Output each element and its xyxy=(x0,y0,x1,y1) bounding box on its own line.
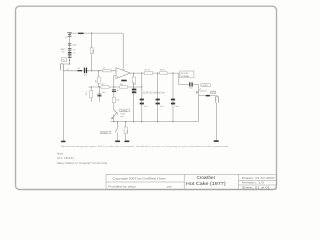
svg-text:(C) 2007 by GodRest Drive: (C) 2007 by GodRest Drive xyxy=(142,92,165,95)
wire battery column xyxy=(64,33,70,64)
ground out jack xyxy=(214,140,219,142)
wire level pot wiper to out jack xyxy=(199,95,216,97)
junction output run / cap C column xyxy=(141,73,142,74)
junction battery column / IN label xyxy=(69,60,70,61)
capacitor column D plates xyxy=(156,99,160,101)
potentiometer DRIVE wiper xyxy=(114,110,119,115)
wire cap column A to ground xyxy=(90,87,92,102)
junction lower rail / electrolytic column xyxy=(133,121,134,122)
junction lower rail / mode switch xyxy=(117,121,118,122)
svg-text:10u: 10u xyxy=(175,106,178,108)
svg-text:10k: 10k xyxy=(116,99,119,101)
svg-text:Hot Cake (1977): Hot Cake (1977) xyxy=(186,181,226,186)
potentiometer LEVEL arrow xyxy=(197,88,201,92)
svg-text:R7 1k: R7 1k xyxy=(145,69,150,71)
svg-text:-: - xyxy=(117,70,118,73)
capacitor column E plates xyxy=(171,99,175,101)
junction lower rail / cap D column xyxy=(157,121,158,122)
resistor R 1k box xyxy=(103,70,111,72)
wire opamp V+ pin drop xyxy=(122,33,124,70)
resistor feedback rail box 2 xyxy=(120,86,128,88)
wire mode switch upper leg xyxy=(117,122,119,127)
diode power plates xyxy=(68,47,72,50)
wire mode switch lower leg xyxy=(117,132,119,140)
schematic wires xyxy=(63,33,216,140)
svg-text:1n: 1n xyxy=(117,90,119,92)
bold label +9V xyxy=(78,33,84,35)
resistor mode box xyxy=(124,127,127,134)
junction input wire / bias column xyxy=(91,70,92,71)
svg-text:Copyright 2007 by GodRest Driv: Copyright 2007 by GodRest Drive xyxy=(113,177,167,181)
ground mode switch xyxy=(115,141,120,143)
wire feedback / electrolytic column xyxy=(133,73,135,122)
junction +9V rail / bias column xyxy=(91,33,92,34)
capacitor C input (polarized, dark bars) xyxy=(84,68,85,74)
opamp IC1 triangle xyxy=(116,68,130,79)
title block xyxy=(106,174,277,189)
wire opamp output run xyxy=(130,73,189,85)
resistor R input series (dark blob) xyxy=(77,70,82,71)
resistor R 1M box xyxy=(97,77,100,83)
label box LEVEL xyxy=(200,84,210,87)
wire cap column B to ground xyxy=(98,87,100,102)
svg-text:1M: 1M xyxy=(96,80,98,83)
junction lower rail / cap C column xyxy=(141,121,142,122)
ground input jack xyxy=(61,141,66,143)
svg-text:By downloading you agree NOT t: By downloading you agree NOT to alter th… xyxy=(61,145,230,148)
svg-text:Provided by: www.: Provided by: www. xyxy=(108,185,136,189)
svg-text:log: log xyxy=(121,116,124,118)
label box MODE xyxy=(101,131,111,134)
wire cap column D xyxy=(157,73,159,122)
wire feedback rail xyxy=(88,86,142,88)
junction feedback rail / cap C column xyxy=(141,86,142,87)
capacitor column B plates xyxy=(97,93,101,96)
svg-text:10u: 10u xyxy=(160,106,163,108)
svg-text:NOT AT: NOT AT xyxy=(181,72,189,75)
value labels xyxy=(61,44,207,133)
junction feedback rail / noninverting column xyxy=(113,86,114,87)
svg-text:10u: 10u xyxy=(144,106,147,108)
svg-text:MODE: MODE xyxy=(102,132,109,134)
label box NOT/NORMAL xyxy=(180,71,194,78)
junction input node xyxy=(98,70,99,71)
svg-text:1k: 1k xyxy=(103,67,105,69)
resistor column A box xyxy=(90,91,93,98)
junction output run / cap D column xyxy=(157,73,158,74)
svg-text:Many thanks to "Imperial" for: Many thanks to "Imperial" for his help. xyxy=(57,162,108,165)
wire mode resistor legs xyxy=(125,122,127,141)
junction feedback rail / column A xyxy=(91,86,92,87)
border frame xyxy=(16,6,277,189)
resistor column noninv box xyxy=(112,97,115,103)
wire top rail +9V xyxy=(70,32,124,34)
bold label wiper dash xyxy=(206,95,210,97)
wire cap column E xyxy=(172,73,174,122)
svg-text:100u: 100u xyxy=(72,44,76,46)
capacitor power filter plates xyxy=(68,42,71,45)
svg-text:47n: 47n xyxy=(86,92,88,95)
jack IN symbol xyxy=(61,64,64,71)
svg-text:NORMAL: NORMAL xyxy=(181,75,191,78)
jack OUT symbol xyxy=(216,96,219,103)
svg-text:.com: .com xyxy=(166,186,173,189)
battery BAT1 symbol xyxy=(67,31,71,34)
junction lower rail / drive pot xyxy=(113,121,114,122)
junction lower rail / mode resistor xyxy=(125,121,126,122)
junction feedback rail / column B xyxy=(99,86,100,87)
label box OUT xyxy=(210,91,215,94)
svg-text:R8 1k: R8 1k xyxy=(160,69,165,71)
wire input signal xyxy=(64,70,116,72)
capacitor power 2 plates xyxy=(68,52,72,53)
svg-text:10k: 10k xyxy=(133,84,136,86)
wire bias column R 2M2 xyxy=(91,33,93,71)
junction battery column / jack ring xyxy=(69,63,70,64)
capacitor column C plates xyxy=(140,99,144,101)
wire input jack sleeve to ground xyxy=(62,70,64,141)
svg-text:Sheet: 01 of 01: Sheet: 01 of 01 xyxy=(242,186,271,189)
svg-text:Drawn: 07.07.2007: Drawn: 07.07.2007 xyxy=(242,177,276,180)
svg-text:DRIVE: DRIVE xyxy=(121,110,128,112)
junction feedback rail / electrolytic column xyxy=(133,86,134,87)
wire opamp noninverting input column xyxy=(114,75,116,121)
resistor output run box 2 xyxy=(160,72,167,75)
capacitor output electrolytic bars xyxy=(189,82,190,86)
svg-text:Crowther: Crowther xyxy=(196,175,215,180)
capacitor noninv column plates xyxy=(112,89,116,90)
wire level pot track xyxy=(198,85,200,122)
ground mode resistor xyxy=(124,141,129,143)
resistor feedback rail box 1 xyxy=(101,86,109,88)
svg-text:500k lin: 500k lin xyxy=(200,91,207,93)
capacitor electrolytic feedback plates xyxy=(132,89,136,91)
svg-text:7: 7 xyxy=(126,65,127,67)
svg-text:IC1: LM741: IC1: LM741 xyxy=(57,158,75,160)
svg-text:LEVEL: LEVEL xyxy=(202,85,209,87)
svg-text:Version: 1.0: Version: 1.0 xyxy=(242,182,265,185)
bold label LM741 xyxy=(121,80,126,82)
svg-text:Notes:: Notes: xyxy=(57,153,64,156)
wire out jack sleeve to ground xyxy=(215,103,217,141)
resistor R 2M2 box xyxy=(90,48,93,54)
label box DRIVE xyxy=(120,109,130,112)
wire R 1M input node to feedback rail xyxy=(98,71,100,87)
wire cap column C xyxy=(141,73,143,122)
resistor feedback box xyxy=(132,77,135,83)
junction lower rail / cap E column xyxy=(172,121,173,122)
svg-text:10k: 10k xyxy=(127,130,129,133)
label box IN xyxy=(62,58,67,62)
wire output cap to level pot xyxy=(193,84,199,86)
switch blade mode xyxy=(115,126,118,132)
svg-text:10u: 10u xyxy=(189,88,192,90)
capacitor power 3 plates xyxy=(68,55,72,58)
resistor output run box 1 xyxy=(144,72,152,75)
svg-text:10n: 10n xyxy=(102,92,105,94)
junction output run / cap E column xyxy=(172,73,173,74)
junction opamp output / feedback xyxy=(133,73,134,74)
wire lower rail xyxy=(110,121,198,123)
svg-text:10k: 10k xyxy=(120,84,123,86)
